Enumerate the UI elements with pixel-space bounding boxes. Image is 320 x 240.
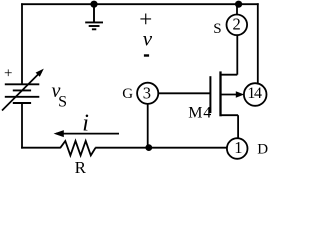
label - (bottom of v) [144,54,149,56]
svg-text:S: S [58,94,67,111]
svg-text:2: 2 [233,14,241,33]
junction dot top right [235,1,242,8]
transistor M4 [210,71,238,116]
variable arrow through source [2,69,44,111]
wire right vertical [257,3,259,84]
junction dot bottom [145,144,152,151]
source stub [221,74,238,76]
svg-text:v: v [143,27,153,51]
channel bar [219,71,221,116]
node 14 (bulk) circle [244,83,267,106]
node 3 (gate) circle [137,83,158,104]
wire bottom right [95,147,227,149]
current arrow i [54,130,119,137]
node 1 (drain) circle [227,138,248,159]
svg-text:+: + [4,65,12,81]
junction dot at ground [90,1,97,8]
svg-text:i: i [82,110,89,136]
svg-text:G: G [122,86,133,102]
wire top horizontal [21,3,259,5]
ground [85,4,103,29]
wire node2 top to junction [236,4,238,14]
bulk arrow [221,94,238,96]
resistor R [60,141,95,155]
wire left vertical upper [21,3,23,84]
wire left vertical lower [21,103,23,149]
wire source vertical up [236,35,238,75]
voltage source vS (variable battery) [5,84,40,103]
svg-text:M4: M4 [188,104,212,121]
drain stub [221,114,239,116]
svg-text:S: S [213,21,221,37]
svg-text:14: 14 [247,85,262,102]
wire bottom left [21,147,61,149]
svg-text:1: 1 [234,138,242,157]
wire from node 3 down to bottom [147,104,149,148]
svg-text:3: 3 [143,83,151,102]
wire drain vertical down [237,115,239,138]
gate bar [209,76,211,113]
wire gate horizontal [158,92,209,94]
node 2 (source) circle [227,14,248,35]
svg-text:D: D [257,142,268,158]
svg-text:R: R [75,158,87,177]
